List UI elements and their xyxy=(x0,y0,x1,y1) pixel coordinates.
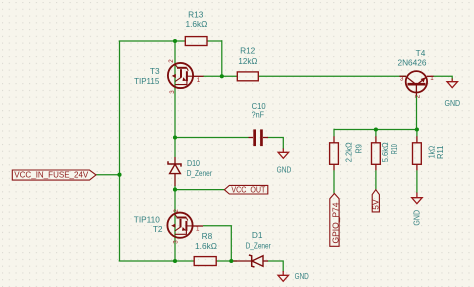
svg-text:D10: D10 xyxy=(187,158,200,168)
svg-text:3: 3 xyxy=(169,90,176,94)
junction at T2 emitter on rail xyxy=(173,259,177,263)
svg-text:R12: R12 xyxy=(240,46,256,56)
junction at VCC_IN tap xyxy=(117,173,121,177)
ground symbol under R11 xyxy=(412,193,423,204)
svg-text:VCC_IN_FUSE_24V: VCC_IN_FUSE_24V xyxy=(14,170,88,180)
svg-text:1.6kΩ: 1.6kΩ xyxy=(185,19,207,29)
svg-text:VCC_OUT: VCC_OUT xyxy=(231,185,265,195)
svg-text:D_Zener: D_Zener xyxy=(246,241,271,251)
resistor R10 xyxy=(372,143,381,165)
R10 pin stubs xyxy=(375,136,377,143)
wire R12 to T4 base xyxy=(258,75,406,77)
wire bottom rail left of R8 xyxy=(119,260,195,262)
junction at C10 branch xyxy=(173,135,177,139)
svg-text:2: 2 xyxy=(415,94,422,98)
svg-text:1: 1 xyxy=(430,75,434,82)
net label VCC_OUT xyxy=(224,185,267,195)
wire R13 right to corner xyxy=(207,40,222,42)
junction at R11 top / T4 emitter xyxy=(415,127,419,131)
svg-text:2: 2 xyxy=(173,209,180,213)
svg-text:5V: 5V xyxy=(371,199,381,210)
svg-text:R9: R9 xyxy=(354,144,364,154)
svg-text:GND: GND xyxy=(412,210,422,226)
net label VCC_IN_FUSE_24V xyxy=(12,170,96,181)
wire from VCC_IN label to main vertical xyxy=(96,174,120,176)
svg-text:GND: GND xyxy=(295,271,309,281)
junction at top rail / T3 collector xyxy=(173,39,177,43)
svg-text:R11: R11 xyxy=(435,145,445,159)
svg-text:3: 3 xyxy=(173,240,180,244)
svg-text:R8: R8 xyxy=(202,231,213,241)
wire divider top rail xyxy=(334,129,417,131)
svg-text:R10: R10 xyxy=(389,144,399,154)
wire corner down to base net xyxy=(221,40,223,76)
svg-text:D1: D1 xyxy=(252,230,263,240)
R11 pin stubs xyxy=(416,136,418,143)
svg-text:2: 2 xyxy=(168,59,175,63)
wire bottom rail R8 to D1 xyxy=(216,260,237,262)
junction at T3 base / R13 / R12 xyxy=(220,74,224,78)
wire T2 base right then down to rail xyxy=(203,226,231,261)
svg-text:TIP110: TIP110 xyxy=(134,215,160,225)
wire D10 anode through T2 to bottom rail xyxy=(174,186,176,262)
wire T4 right pin to GND corner xyxy=(433,76,452,79)
svg-text:12kΩ: 12kΩ xyxy=(238,56,257,66)
net label 5V xyxy=(371,190,381,212)
wire R11 top drop xyxy=(416,130,418,137)
net label GPIO_P74 xyxy=(330,194,341,247)
zener diode D1 xyxy=(233,255,268,267)
svg-text:2.2kΩ: 2.2kΩ xyxy=(343,142,353,162)
svg-text:R13: R13 xyxy=(188,10,204,20)
transistor T2 xyxy=(167,213,203,238)
svg-text:3: 3 xyxy=(400,76,404,83)
resistor R9 xyxy=(330,143,339,165)
svg-text:1: 1 xyxy=(196,226,200,233)
svg-text:GPIO_P74: GPIO_P74 xyxy=(331,202,341,243)
wire D1 anode to GND corner xyxy=(268,261,284,272)
svg-text:D_Zener: D_Zener xyxy=(187,168,212,178)
wire R11 bottom to GND xyxy=(416,170,418,193)
ground symbol under C10 xyxy=(278,149,289,159)
wire R10 bottom to 5V label xyxy=(375,170,377,190)
wire R10 top drop xyxy=(375,130,377,137)
svg-text:2N6426: 2N6426 xyxy=(397,58,426,68)
resistor R12 xyxy=(237,72,258,81)
wire T3 base to R12 xyxy=(203,75,238,77)
svg-text:T2: T2 xyxy=(153,224,163,234)
svg-text:T3: T3 xyxy=(150,66,160,76)
junction at T2 base drop on rail xyxy=(229,259,233,263)
resistor R13 xyxy=(185,37,207,46)
wire top rail left of R13 xyxy=(119,40,186,42)
wire branch to VCC_OUT label xyxy=(175,189,225,191)
zener diode D10 xyxy=(168,157,181,186)
wire vertical top rail through T3 down to C10 junction xyxy=(174,41,176,157)
transistor T4 xyxy=(400,71,434,95)
resistor R8 xyxy=(194,257,216,266)
svg-text:GND: GND xyxy=(445,98,461,108)
svg-text:GND: GND xyxy=(277,164,292,174)
junction at VCC_OUT branch xyxy=(173,188,177,192)
wire C10 right to GND corner xyxy=(268,138,284,150)
transistor T3 xyxy=(168,63,204,88)
wire R9 bottom to GPIO label xyxy=(333,170,335,193)
svg-text:1.6kΩ: 1.6kΩ xyxy=(195,241,217,251)
svg-text:1: 1 xyxy=(197,77,201,84)
wire main left vertical bus xyxy=(119,41,121,261)
ground symbol after D1 xyxy=(278,271,289,281)
wire T4 emitter down to divider rail xyxy=(416,95,418,130)
junction at R10 top xyxy=(374,127,378,131)
R9 pin stubs xyxy=(333,136,335,143)
ground symbol near T4 xyxy=(447,79,458,88)
svg-text:?nF: ?nF xyxy=(252,109,264,119)
svg-text:TIP115: TIP115 xyxy=(134,76,160,86)
resistor R11 xyxy=(413,143,422,165)
wire R9 top drop xyxy=(333,129,335,137)
wire branch to C10 xyxy=(175,137,249,139)
capacitor C10 xyxy=(249,129,269,146)
